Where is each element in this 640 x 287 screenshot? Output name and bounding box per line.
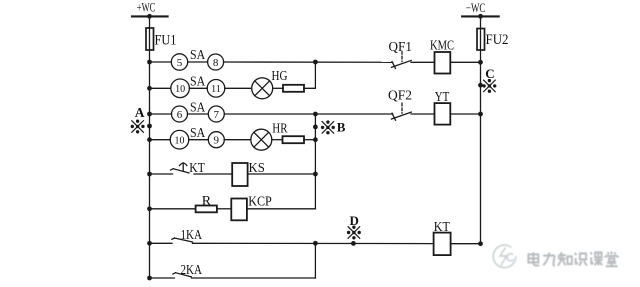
junction dot YT-bus <box>478 112 483 117</box>
svg-text:9: 9 <box>214 135 220 147</box>
svg-text:KMC: KMC <box>430 39 454 54</box>
svg-text:KCP: KCP <box>248 195 272 210</box>
marker ※ B <box>321 120 335 134</box>
svg-text:HG: HG <box>272 69 288 84</box>
wire row1 right to QF1 <box>224 61 393 63</box>
contact KT time-delay blade <box>171 169 189 173</box>
junction dot row2-bus <box>147 86 152 91</box>
junction dot row3-midbus <box>313 112 318 117</box>
label FU1 <box>155 33 177 49</box>
wire right bus vertical <box>480 16 482 243</box>
junction dot KT-bus <box>478 241 483 246</box>
node +WC label <box>137 1 156 15</box>
label C <box>485 66 494 81</box>
contact 1KA blade <box>172 238 193 242</box>
fuse FU1 <box>146 28 154 50</box>
svg-text:10: 10 <box>175 84 185 95</box>
lamp HR <box>251 129 272 150</box>
junction dot row8-bus <box>147 276 152 281</box>
label HG <box>272 69 288 84</box>
junction dot test point C <box>478 83 483 88</box>
wire row7 to KT coil <box>193 242 434 244</box>
resistor R <box>196 206 217 213</box>
svg-text:FU1: FU1 <box>155 33 177 49</box>
marker ※ D <box>347 226 361 240</box>
SA contact circle 7 <box>208 106 224 122</box>
junction dot row4-bus <box>147 137 152 142</box>
wire row5 KS to mid bus <box>248 173 316 175</box>
coil YT <box>435 103 451 125</box>
SA contact circle 10 <box>171 79 190 98</box>
+WC bus bar <box>132 15 168 17</box>
svg-text:2KA: 2KA <box>181 263 203 278</box>
label SA row4 <box>190 126 206 141</box>
wire row3 right to QF2 <box>224 113 392 115</box>
watermark text 电力知识课堂 <box>528 251 617 266</box>
wire row4 left <box>150 139 171 141</box>
label KT coil <box>434 220 450 235</box>
junction dot row7-bus <box>147 241 152 246</box>
label KS <box>249 161 265 176</box>
label A <box>135 105 145 120</box>
junction dot row7-midbus <box>313 241 318 246</box>
wire mid vertical segment row3 to KCP <box>314 114 316 209</box>
label D <box>350 213 359 228</box>
label 2KA <box>181 263 203 278</box>
wire KT coil to right bus <box>451 243 481 245</box>
lamp HG <box>252 78 273 99</box>
SA contact circle 8 <box>208 54 224 70</box>
wire row3 middle <box>188 113 209 115</box>
svg-text:7: 7 <box>214 109 220 121</box>
wire lamp to resistor HG <box>273 87 283 89</box>
svg-text:C: C <box>485 66 494 81</box>
svg-text:HR: HR <box>272 122 288 137</box>
label YT <box>435 90 450 105</box>
label SA row3 <box>190 101 206 116</box>
svg-text:−WC: −WC <box>466 1 486 15</box>
svg-text:A: A <box>135 105 145 120</box>
wire resistor HG to mid riser <box>304 62 315 88</box>
junction dot row4-midbus <box>313 137 318 142</box>
wire QF2 to YT <box>411 113 435 115</box>
coil KS <box>232 163 247 186</box>
breaker contact QF2 <box>392 103 412 120</box>
svg-text:B: B <box>337 120 346 135</box>
SA contact circle 11 <box>207 80 225 98</box>
wire QF1 to KMC <box>411 61 435 63</box>
breaker contact QF1 <box>392 52 412 69</box>
junction dot row5-midbus <box>313 172 318 177</box>
svg-text:+WC: +WC <box>137 1 156 15</box>
wire row6 KCP to mid bus corner <box>247 208 316 210</box>
svg-text:1KA: 1KA <box>181 228 203 243</box>
wire row5 KT to KS <box>194 173 232 175</box>
wire row7 left <box>150 242 173 244</box>
label R <box>202 194 212 209</box>
marker ※ A <box>131 120 145 134</box>
delay symbol on KT contact <box>180 163 187 171</box>
label KT contact <box>189 161 205 176</box>
junction dot KMC-bus <box>478 60 483 65</box>
junction dot row1-bus <box>147 60 152 65</box>
label QF2 <box>388 89 412 104</box>
fuse FU2 <box>477 29 485 51</box>
wire row4 middle <box>189 139 209 141</box>
wire row8 left <box>150 277 175 279</box>
svg-text:11: 11 <box>211 84 221 95</box>
junction dot row1-midbus <box>313 60 318 65</box>
wire R to KCP <box>217 208 231 210</box>
coil KCP <box>231 199 247 221</box>
svg-text:KT: KT <box>434 220 450 235</box>
svg-text:YT: YT <box>435 90 450 105</box>
label SA row2 <box>190 74 206 89</box>
label B <box>337 120 346 135</box>
label 1KA <box>181 228 203 243</box>
watermark logo <box>493 245 516 268</box>
wire row3 left <box>150 113 172 115</box>
svg-text:QF1: QF1 <box>389 40 413 55</box>
label KCP <box>248 195 272 210</box>
label KMC <box>430 39 454 54</box>
junction dot row3-bus <box>147 112 152 117</box>
coil KT <box>434 233 451 256</box>
wire row6 left <box>150 208 196 210</box>
junction dot -WC <box>478 14 483 19</box>
contact 2KA blade <box>173 273 191 277</box>
junction dot test point D <box>351 241 356 246</box>
wire KMC to right bus <box>450 61 480 63</box>
SA contact circle 9 <box>208 132 224 148</box>
wire row4 to lamp HR <box>224 139 251 141</box>
junction dot row6-bus <box>147 206 152 211</box>
wire lamp HR to resistor <box>272 139 283 141</box>
wire mid vertical segment row7 to row8 <box>314 243 316 278</box>
SA contact circle 5 <box>171 54 187 70</box>
label SA row1 <box>190 48 206 63</box>
junction dot test point A <box>147 124 152 129</box>
wire row2 left <box>150 87 171 89</box>
junction dot row5-bus <box>147 172 152 177</box>
svg-text:10: 10 <box>175 135 185 146</box>
wire YT to right bus <box>450 113 480 115</box>
wire left bus vertical <box>149 16 151 278</box>
svg-text:SA: SA <box>190 48 206 63</box>
svg-text:SA: SA <box>190 74 206 89</box>
svg-text:5: 5 <box>177 57 183 69</box>
junction dot +WC <box>147 14 152 19</box>
svg-text:QF2: QF2 <box>388 89 412 104</box>
label QF1 <box>389 40 413 55</box>
wire row2 to lamp <box>225 87 252 89</box>
svg-text:8: 8 <box>213 57 219 69</box>
wire row1 middle <box>188 61 208 63</box>
svg-text:6: 6 <box>177 109 183 121</box>
label HR <box>272 122 288 137</box>
SA contact circle 10b <box>170 130 189 149</box>
node -WC label <box>466 1 486 15</box>
svg-text:FU2: FU2 <box>486 32 509 48</box>
marker ※ C <box>482 79 496 93</box>
-WC bus bar <box>462 15 499 17</box>
wire row1 left <box>150 61 172 63</box>
wire row5 left <box>150 173 173 175</box>
resistor HG ballast <box>283 85 304 92</box>
coil KMC <box>435 52 451 74</box>
wire row2 middle <box>189 87 207 89</box>
label FU2 <box>486 32 509 48</box>
svg-text:SA: SA <box>190 126 206 141</box>
SA contact circle 6 <box>172 106 188 122</box>
junction dot test point B <box>313 125 318 130</box>
resistor HR ballast <box>283 136 305 143</box>
wire row8 to mid bus <box>192 277 316 279</box>
wire resistor HR to mid bus <box>304 139 315 141</box>
svg-text:SA: SA <box>190 101 206 116</box>
